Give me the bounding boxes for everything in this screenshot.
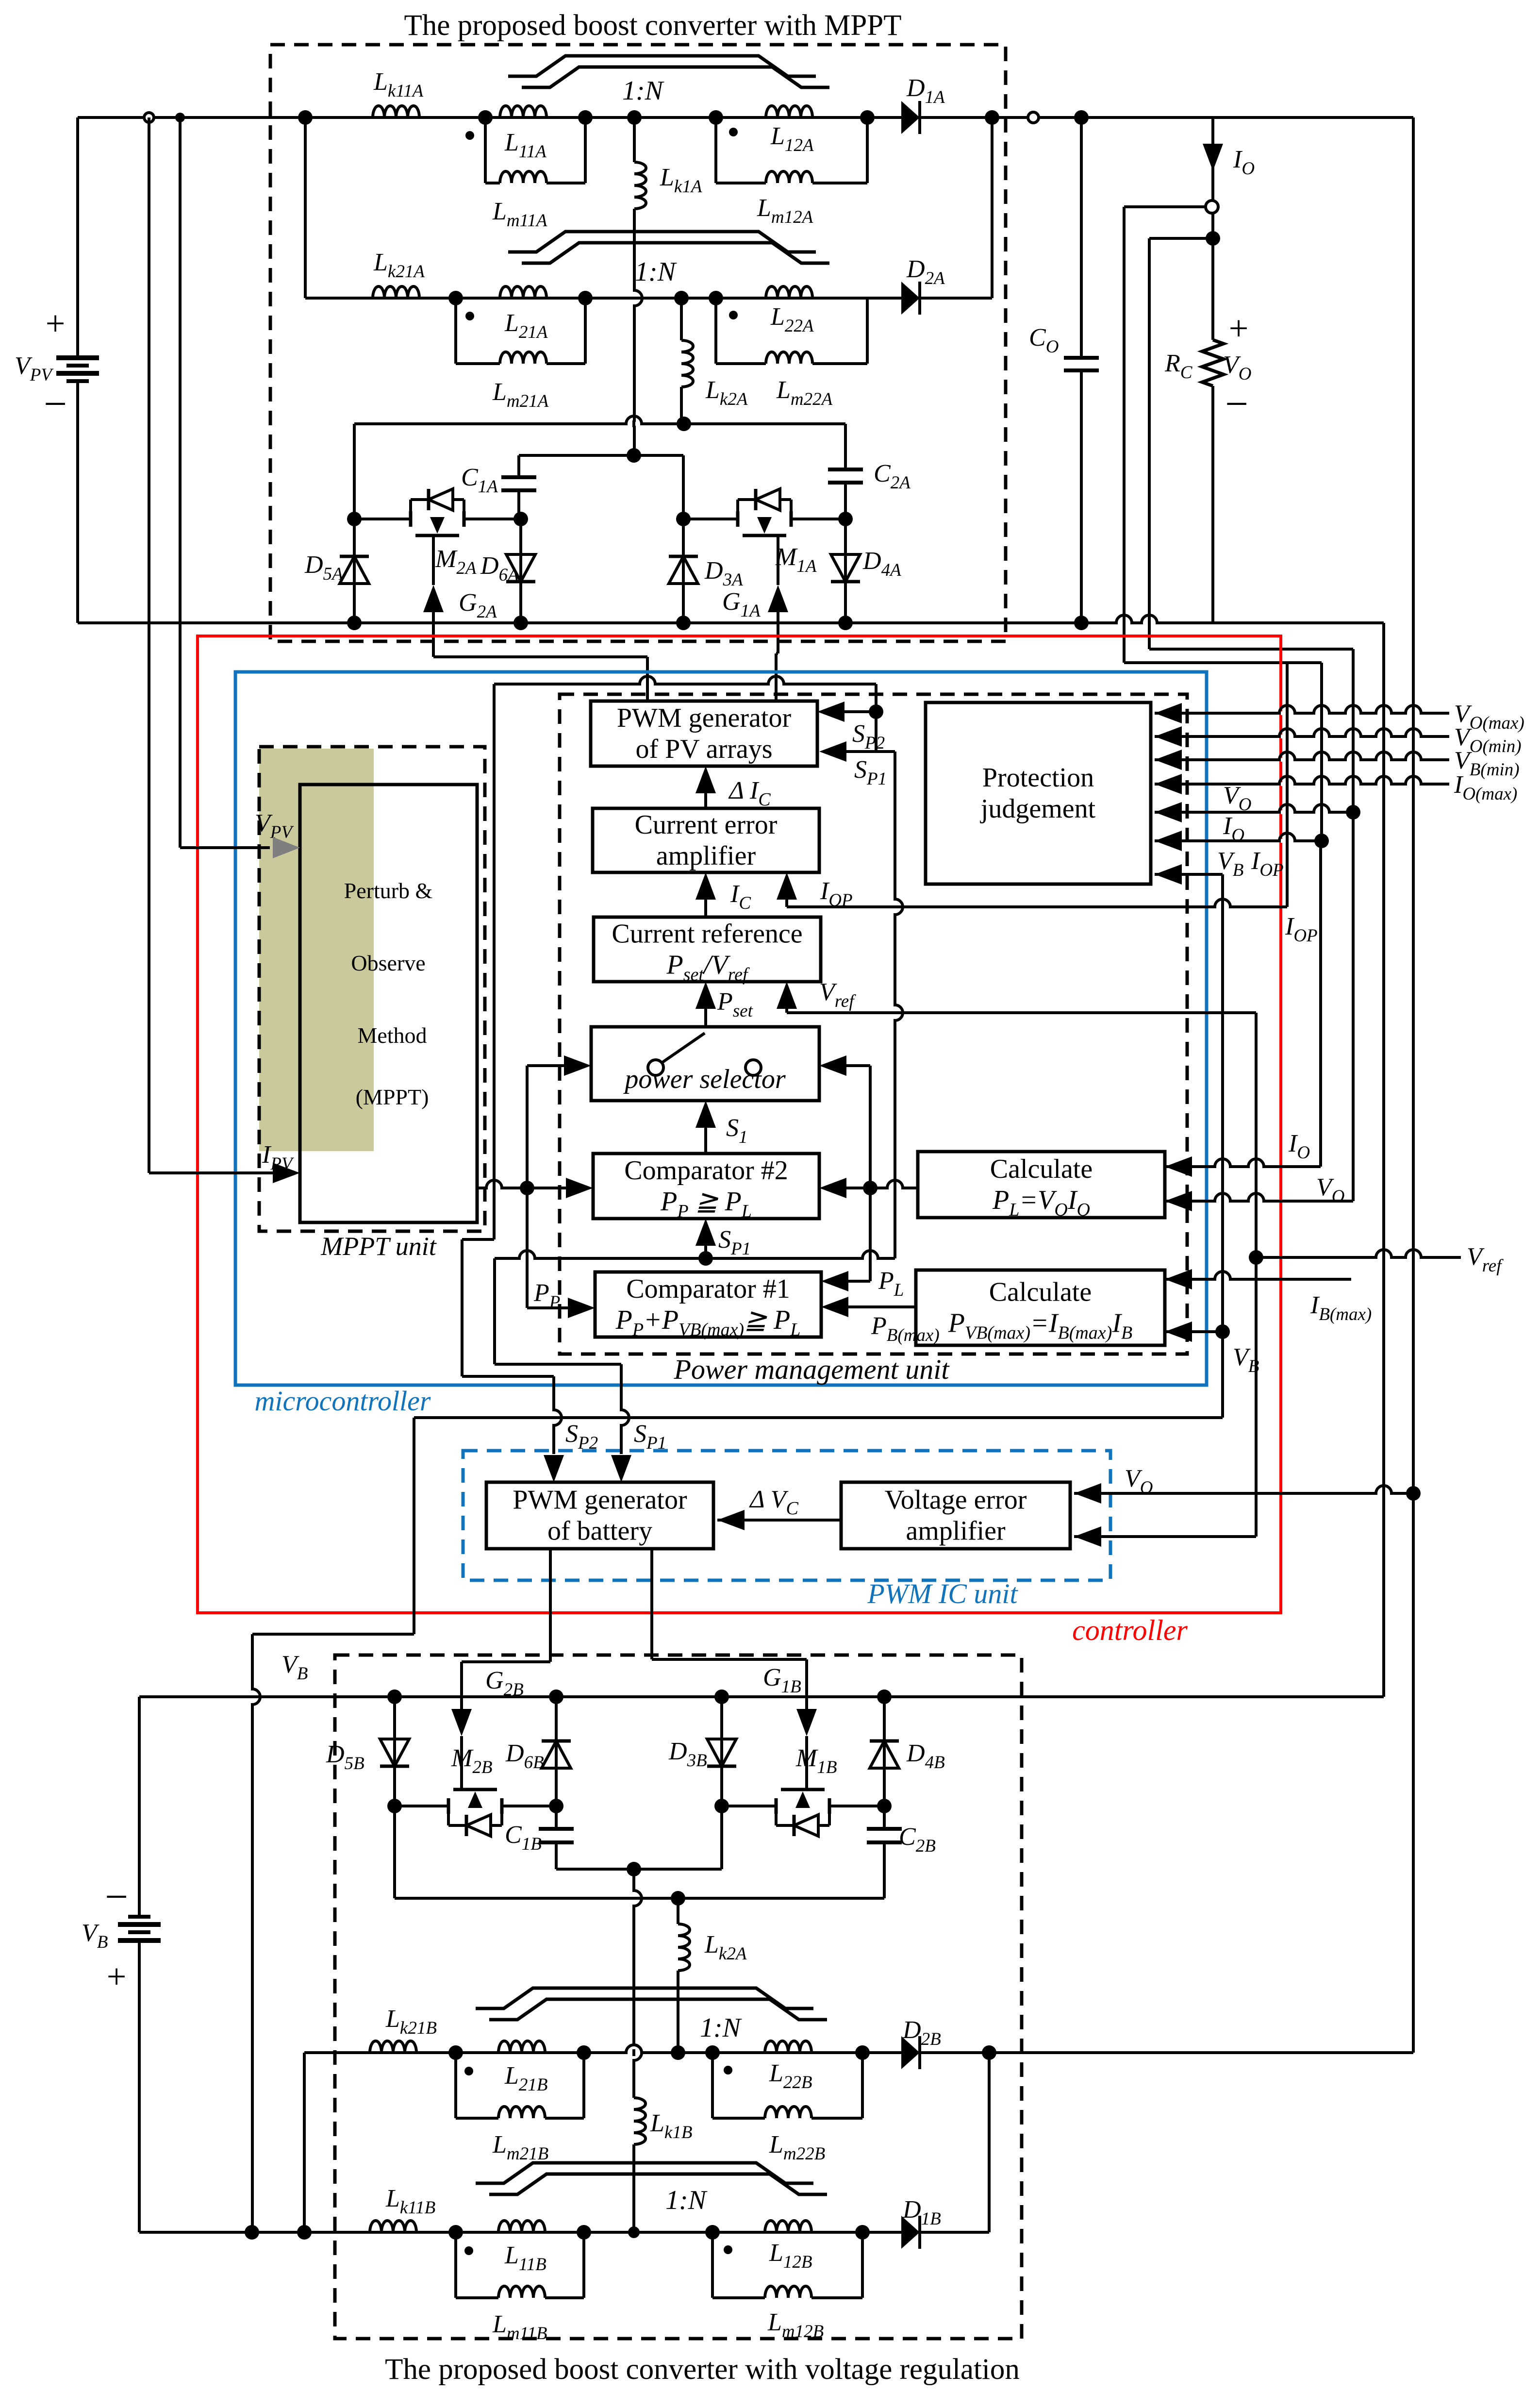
svg-text:amplifier: amplifier [656,841,756,871]
svg-text:−: − [44,381,67,427]
svg-text:Observe: Observe [351,951,425,975]
svg-text:1:N: 1:N [635,257,677,287]
svg-text:Comparator #1: Comparator #1 [626,1274,790,1304]
svg-text:controller: controller [1072,1614,1188,1646]
svg-text:(MPPT): (MPPT) [356,1085,429,1109]
svg-text:The proposed boost converter w: The proposed boost converter with voltag… [385,2353,1020,2386]
svg-text:Comparator #2: Comparator #2 [624,1155,788,1186]
svg-text:1:N: 1:N [700,2013,742,2043]
svg-text:Calculate: Calculate [989,1277,1092,1307]
svg-text:The proposed boost converter w: The proposed boost converter with MPPT [404,9,902,42]
svg-text:Calculate: Calculate [990,1154,1093,1184]
svg-text:Power management unit: Power management unit [673,1354,950,1385]
svg-text:1:N: 1:N [622,76,664,106]
svg-text:+: + [1229,309,1249,348]
svg-text:+: + [107,1957,127,1996]
svg-text:of PV arrays: of PV arrays [635,734,772,764]
svg-text:PWM generator: PWM generator [617,703,792,733]
svg-text:1:N: 1:N [665,2185,708,2215]
svg-text:Protection: Protection [982,763,1094,793]
svg-text:Current reference: Current reference [612,919,802,949]
svg-text:of battery: of battery [547,1516,652,1546]
svg-text:−: − [105,1874,128,1920]
svg-text:PP ≧ PL: PP ≧ PL [660,1187,752,1221]
svg-text:PL=VOIO: PL=VOIO [992,1185,1090,1220]
svg-text:Current error: Current error [635,810,778,840]
svg-text:judgement: judgement [980,794,1096,824]
svg-text:PWM IC unit: PWM IC unit [867,1578,1018,1609]
svg-text:Voltage error: Voltage error [885,1485,1027,1515]
svg-text:MPPT unit: MPPT unit [320,1232,437,1261]
svg-text:PWM generator: PWM generator [513,1485,687,1515]
svg-text:+: + [46,304,66,343]
svg-text:amplifier: amplifier [906,1516,1006,1546]
svg-text:Perturb &: Perturb & [344,878,433,903]
svg-text:−: − [1225,381,1248,427]
svg-text:microcontroller: microcontroller [255,1385,431,1417]
svg-text:Method: Method [357,1023,427,1048]
